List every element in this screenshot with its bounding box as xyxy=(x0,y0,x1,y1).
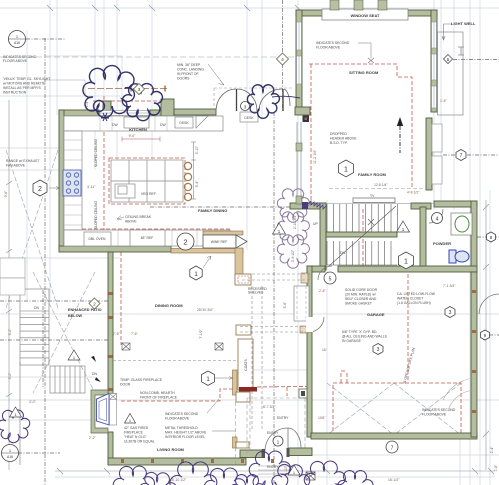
svg-text:CONC. LANDING: CONC. LANDING xyxy=(177,68,204,72)
svg-text:16'-1/2": 16'-1/2" xyxy=(388,478,400,482)
powder bottom / garage top wall xyxy=(338,266,477,272)
hallway chase box xyxy=(294,286,309,321)
powder fixtures xyxy=(451,213,472,235)
svg-text:A16: A16 xyxy=(14,41,20,45)
markers: diamonds xyxy=(89,53,289,309)
garage second-floor X crosses xyxy=(327,383,461,435)
svg-text:3: 3 xyxy=(449,310,452,316)
svg-text:3: 3 xyxy=(377,347,380,353)
svg-text:B.S.D. TYP.: B.S.D. TYP. xyxy=(330,141,348,145)
light well xyxy=(438,32,464,115)
svg-text:FLOOR ABOVE: FLOOR ABOVE xyxy=(165,417,190,421)
svg-text:DROPPED: DROPPED xyxy=(330,132,347,136)
svg-text:MAX. HEIGHT 1/2" ABOVE: MAX. HEIGHT 1/2" ABOVE xyxy=(165,431,207,435)
corridor dashed columns xyxy=(113,274,310,430)
svg-text:9'-0": 9'-0" xyxy=(129,134,137,138)
powder top wall xyxy=(434,201,477,207)
svg-text:3'-0": 3'-0" xyxy=(29,400,37,404)
svg-text:1: 1 xyxy=(404,259,408,266)
svg-text:5: 5 xyxy=(329,277,332,283)
svg-text:A16: A16 xyxy=(7,455,13,459)
svg-text:7'-6": 7'-6" xyxy=(131,332,139,336)
garage bottom wall xyxy=(311,433,477,439)
svg-text:ENTRY: ENTRY xyxy=(277,416,289,420)
svg-text:ENTRY: ENTRY xyxy=(267,431,279,435)
svg-text:'VELUX' TEMP. GL. SKYLIGHT: 'VELUX' TEMP. GL. SKYLIGHT xyxy=(3,77,50,81)
dining left wall xyxy=(108,252,113,395)
svg-text:WINE REF: WINE REF xyxy=(211,240,228,244)
svg-text:WINDOW SEAT: WINDOW SEAT xyxy=(350,13,380,18)
svg-text:TEMP. GLASS FIREPLACE: TEMP. GLASS FIREPLACE xyxy=(120,378,163,382)
svg-text:7'-1 3/4": 7'-1 3/4" xyxy=(443,284,456,288)
svg-text:9'-4": 9'-4" xyxy=(195,180,199,188)
svg-text:1'-6": 1'-6" xyxy=(440,99,448,103)
island xyxy=(111,160,183,202)
kitchen top wall right xyxy=(150,110,174,116)
door arcs lower xyxy=(265,209,499,451)
porch posts xyxy=(302,202,308,209)
svg-text:CA. LISTED LOW-FLOW: CA. LISTED LOW-FLOW xyxy=(397,292,436,296)
svg-text:2: 2 xyxy=(183,238,187,247)
stools xyxy=(184,162,191,200)
svg-text:BELOW: BELOW xyxy=(68,314,83,318)
svg-text:HEADER ABOVE: HEADER ABOVE xyxy=(330,137,357,141)
WALLS olive xyxy=(59,10,477,465)
entry steps xyxy=(258,466,294,474)
dining floor outlets xyxy=(122,343,223,350)
kitchen left wall xyxy=(59,110,64,251)
roof mullions above sitting room xyxy=(330,0,387,10)
svg-text:8'-7 3/4": 8'-7 3/4" xyxy=(263,405,276,409)
range blue xyxy=(63,170,81,196)
fireplace xyxy=(91,390,108,433)
svg-text:"HEAT N GLO": "HEAT N GLO" xyxy=(124,435,147,439)
porch post block xyxy=(299,389,307,398)
living bottom wall xyxy=(108,458,246,465)
svg-text:12-8 1/4": 12-8 1/4" xyxy=(374,183,388,187)
svg-text:DN: DN xyxy=(340,251,345,255)
leader indicates second floor xyxy=(358,43,371,58)
svg-text:RANGE w/ EXHAUST: RANGE w/ EXHAUST xyxy=(6,159,39,163)
svg-text:4'-8 1/2": 4'-8 1/2" xyxy=(407,191,420,195)
svg-text:DBL OVEN: DBL OVEN xyxy=(88,237,106,241)
svg-text:INSTRUCTION: INSTRUCTION xyxy=(3,91,27,95)
living left lower wall xyxy=(108,432,113,464)
svg-text:DN: DN xyxy=(92,372,97,376)
leaders hexagon 1 and living room notes xyxy=(215,377,233,380)
svg-text:DW: DW xyxy=(112,123,118,127)
markers: circles xyxy=(2,31,443,462)
svg-text:IN GARAGE: IN GARAGE xyxy=(342,339,362,343)
svg-text:42" GAS FIRED: 42" GAS FIRED xyxy=(124,426,149,430)
svg-text:GARAGE: GARAGE xyxy=(367,312,385,317)
markers: hexagons xyxy=(33,150,496,386)
windows in walls (white + mullion lines) xyxy=(100,22,437,116)
black arrow family room xyxy=(397,117,403,126)
svg-text:3'-2": 3'-2" xyxy=(8,372,12,380)
family room left window wall xyxy=(297,122,301,203)
svg-text:48" REF: 48" REF xyxy=(141,236,154,240)
driveway arcs xyxy=(443,378,475,408)
svg-text:FAMILY DINING: FAMILY DINING xyxy=(198,208,227,213)
coil handrail xyxy=(308,201,326,209)
svg-text:ENTRY: ENTRY xyxy=(267,465,279,469)
svg-text:INDICATES SECOND: INDICATES SECOND xyxy=(422,408,456,412)
svg-text:UL307B OR EQUAL: UL307B OR EQUAL xyxy=(124,440,155,444)
family dining desk xyxy=(240,112,258,122)
svg-text:4: 4 xyxy=(436,217,439,223)
svg-text:1'-8": 1'-8" xyxy=(494,464,498,472)
svg-text:VEG REF: VEG REF xyxy=(141,192,156,196)
svg-text:3'-2": 3'-2" xyxy=(8,328,12,336)
svg-text:CEILING BREAK: CEILING BREAK xyxy=(125,215,152,219)
svg-text:LIGHT WELL: LIGHT WELL xyxy=(451,21,476,26)
svg-text:1: 1 xyxy=(344,167,348,174)
markers: triangles xyxy=(10,221,410,475)
svg-text:25'/10 3/4": 25'/10 3/4" xyxy=(197,308,214,312)
svg-text:FAN ABOVE: FAN ABOVE xyxy=(6,164,26,168)
svg-text:(20 MIN. RATED) w/: (20 MIN. RATED) w/ xyxy=(345,293,376,297)
svg-text:FAMILY ROOM: FAMILY ROOM xyxy=(358,172,386,177)
svg-text:16': 16' xyxy=(322,348,327,352)
svg-text:(1.6 GALLON FLUSH): (1.6 GALLON FLUSH) xyxy=(397,301,431,305)
french doors arcs xyxy=(216,89,290,111)
dark red beam hallway xyxy=(239,387,257,392)
entry porch dashed outline xyxy=(236,398,306,465)
svg-text:7: 7 xyxy=(460,153,463,159)
window seat xyxy=(322,9,408,20)
svg-text:3'-4": 3'-4" xyxy=(85,100,89,108)
svg-text:2'-4": 2'-4" xyxy=(490,446,494,454)
family room right wall xyxy=(426,118,432,190)
svg-text:2'-8": 2'-8" xyxy=(319,289,327,293)
exterior stair left xyxy=(20,289,85,465)
svg-text:FLOOR ABOVE: FLOOR ABOVE xyxy=(422,413,447,417)
svg-text:FLOOR ABOVE: FLOOR ABOVE xyxy=(3,59,28,63)
svg-text:INTERIOR FLOOR LEVEL: INTERIOR FLOOR LEVEL xyxy=(165,435,205,439)
brown header dash-dot xyxy=(88,88,167,90)
svg-text:3'-10": 3'-10" xyxy=(195,145,199,154)
svg-text:INDICATES SECOND: INDICATES SECOND xyxy=(316,41,350,45)
sitting room right wall xyxy=(431,10,437,112)
svg-text:WATER CLOSET: WATER CLOSET xyxy=(397,297,423,301)
svg-text:11'-2 1/4": 11'-2 1/4" xyxy=(313,149,317,164)
sitting room top wall xyxy=(296,10,437,16)
svg-text:3'-9 1/2": 3'-9 1/2" xyxy=(291,249,295,262)
svg-text:FIREPLACE: FIREPLACE xyxy=(124,431,144,435)
svg-text:POWDER: POWDER xyxy=(433,241,451,246)
svg-text:ABOVE: ABOVE xyxy=(125,220,137,224)
svg-text:5/8" TYPE 'X' GYP. BD.: 5/8" TYPE 'X' GYP. BD. xyxy=(342,330,377,334)
svg-text:10'6": 10'6" xyxy=(318,416,326,420)
svg-text:3'-11": 3'-11" xyxy=(87,185,96,189)
svg-text:KITCHEN: KITCHEN xyxy=(129,127,147,132)
svg-text:DN: DN xyxy=(34,306,39,310)
svg-text:1'-10": 1'-10" xyxy=(284,465,288,474)
sitting room left wall xyxy=(296,10,302,108)
trees xyxy=(83,66,300,121)
svg-text:9'-6": 9'-6" xyxy=(4,190,8,198)
wine ref / butler xyxy=(203,231,243,235)
svg-text:LIVING ROOM: LIVING ROOM xyxy=(157,447,185,452)
svg-text:FRONT OF FIREPLACE: FRONT OF FIREPLACE xyxy=(140,396,178,400)
svg-text:7: 7 xyxy=(391,446,394,452)
kitchen bottom wall xyxy=(59,246,171,252)
path arrows exterior stair xyxy=(91,356,96,362)
svg-text:DINING ROOM: DINING ROOM xyxy=(155,303,183,308)
stairs mid rail xyxy=(326,232,397,237)
svg-text:DOORS: DOORS xyxy=(177,77,190,81)
svg-text:TV: TV xyxy=(370,194,375,198)
svg-text:DW: DW xyxy=(160,123,166,127)
TV wall xyxy=(310,203,433,205)
svg-text:7'-1/2": 7'-1/2" xyxy=(199,328,203,338)
svg-text:@ ALL CEILING AND WALLS: @ ALL CEILING AND WALLS xyxy=(342,335,388,339)
kitchen top wall left xyxy=(59,110,99,116)
svg-text:UP: UP xyxy=(313,222,318,226)
powder right wall xyxy=(471,201,477,273)
svg-text:FLOOR ABOVE: FLOOR ABOVE xyxy=(316,46,341,50)
svg-text:5'-6": 5'-6" xyxy=(283,301,287,309)
svg-text:SMOKE GASKET: SMOKE GASKET xyxy=(345,302,372,306)
family room window boxes xyxy=(432,124,442,152)
svg-text:COATS: COATS xyxy=(244,359,248,371)
svg-text:DESK: DESK xyxy=(179,121,189,125)
svg-text:SHELVES: SHELVES xyxy=(248,291,264,295)
svg-text:METAL THRESHOLD: METAL THRESHOLD xyxy=(165,426,198,430)
sitting room left wall foot xyxy=(295,107,310,115)
svg-text:INSTALL AS PER MFR'S: INSTALL AS PER MFR'S xyxy=(3,86,42,90)
garage right wall xyxy=(471,272,477,437)
svg-text:SLOPED CEILING: SLOPED CEILING xyxy=(94,201,98,230)
svg-text:IN FRONT OF: IN FRONT OF xyxy=(177,72,199,76)
stairs main xyxy=(327,204,397,266)
red dashed second floor outline xyxy=(64,64,461,435)
svg-text:NON-COMB. HEARTH: NON-COMB. HEARTH xyxy=(140,391,175,395)
stairs left wall xyxy=(320,203,326,270)
family room bottom walls xyxy=(290,203,326,209)
svg-text:2: 2 xyxy=(38,186,42,193)
kitchen corner desk triangle xyxy=(196,116,208,128)
svg-text:INDICATES SECOND: INDICATES SECOND xyxy=(165,412,199,416)
dims xyxy=(29,99,456,482)
svg-text:2'-2": 2'-2" xyxy=(89,436,97,440)
svg-text:SELF CLOSER AND: SELF CLOSER AND xyxy=(345,297,377,301)
svg-text:MIN. 36" DEEP: MIN. 36" DEEP xyxy=(177,63,201,67)
svg-text:DOOR: DOOR xyxy=(120,383,131,387)
left edge planters xyxy=(0,258,25,295)
svg-text:SOLID CORE DOOR: SOLID CORE DOOR xyxy=(345,288,378,292)
svg-text:7'-6": 7'-6" xyxy=(113,332,121,336)
svg-text:ENHANCED PATIO: ENHANCED PATIO xyxy=(68,308,102,312)
svg-text:2'-10 3/4": 2'-10 3/4" xyxy=(293,214,297,229)
kitchen counters xyxy=(64,116,230,246)
bottom wall mullions xyxy=(109,290,477,463)
garage door jambs xyxy=(301,273,308,283)
svg-text:DESK: DESK xyxy=(244,116,254,120)
coats closet xyxy=(238,339,253,390)
patio skylight X cross upper xyxy=(6,150,58,308)
garage left wall xyxy=(307,266,312,437)
stairs right wall xyxy=(420,207,426,267)
svg-text:16'-10 1/2": 16'-10 1/2" xyxy=(170,478,187,482)
enhanced patio X cross xyxy=(33,272,95,393)
svg-text:SLOPED CEILING: SLOPED CEILING xyxy=(94,139,98,168)
svg-text:SITTING ROOM: SITTING ROOM xyxy=(349,70,379,75)
entry south walls xyxy=(240,450,262,458)
svg-text:w/ MOTORS AND REMOTE: w/ MOTORS AND REMOTE xyxy=(3,82,46,86)
